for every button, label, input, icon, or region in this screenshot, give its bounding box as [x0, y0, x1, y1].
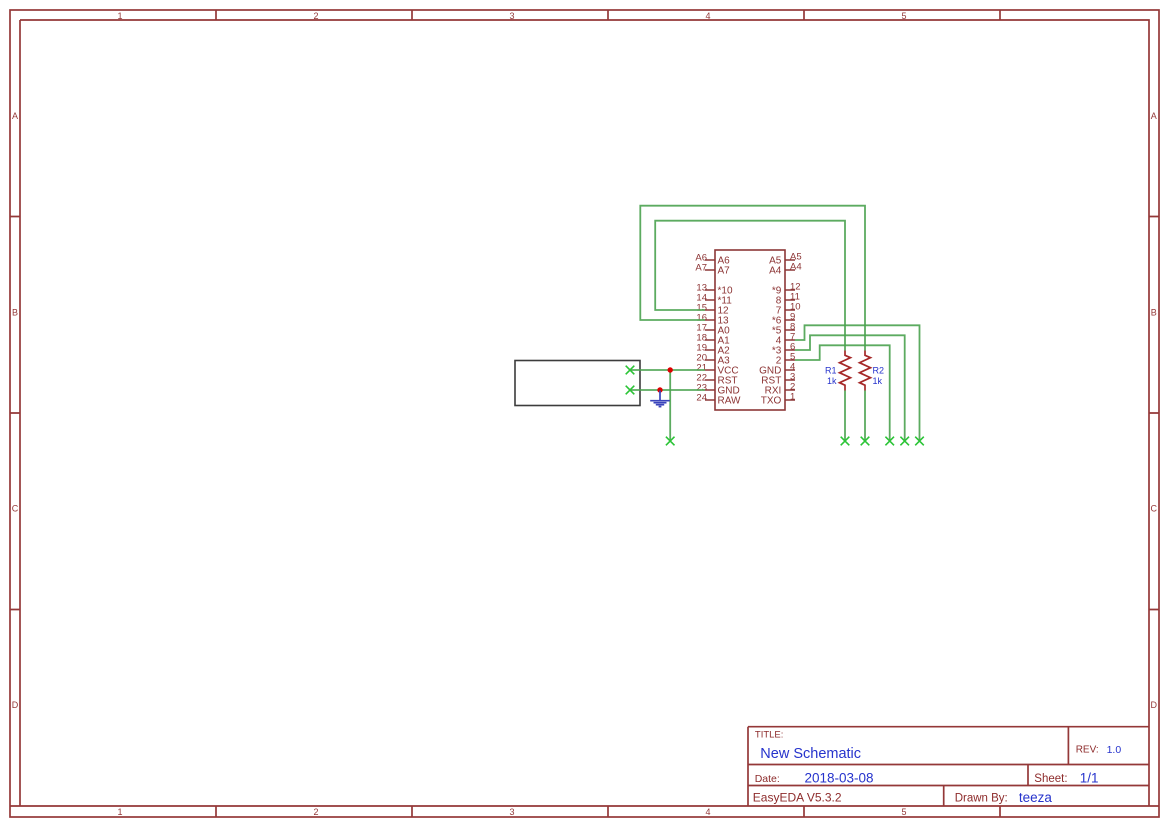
svg-text:Sheet:: Sheet: — [1034, 773, 1067, 785]
wire: pin 5 to bottom flag — [795, 345, 890, 441]
svg-text:1: 1 — [117, 11, 122, 21]
svg-text:A7: A7 — [695, 263, 707, 274]
U1 left pin A7 (A7) — [695, 263, 730, 277]
svg-text:D: D — [1151, 700, 1158, 710]
wire: VCC junction down to flag — [669, 370, 671, 441]
svg-text:3: 3 — [509, 807, 514, 817]
no-connect flag at (670.2,441) — [666, 437, 675, 446]
wire: R1 bottom to flag — [844, 391, 846, 442]
no-connect flag at (630,370) — [626, 366, 635, 375]
svg-text:4: 4 — [705, 11, 710, 21]
svg-text:1k: 1k — [873, 376, 883, 386]
no-connect flag at (919.5,441) — [915, 437, 924, 446]
junction on VCC net — [668, 367, 673, 372]
wire: pin 16 to R2 top (outer loop) — [640, 206, 865, 351]
junction on GND net — [657, 387, 662, 392]
wire: pin 6 to bottom flag — [795, 335, 905, 441]
svg-text:24: 24 — [696, 393, 707, 404]
svg-text:R1: R1 — [825, 366, 837, 376]
svg-text:5: 5 — [901, 11, 906, 21]
resistor R1 — [840, 351, 851, 391]
svg-text:5: 5 — [901, 807, 906, 817]
resistor R2 — [860, 351, 871, 391]
no-connect flag at (889.7,441) — [885, 437, 894, 446]
U1 right pin 5 (2) — [776, 352, 796, 367]
U1 right pin 7 (4) — [776, 332, 796, 347]
wire: R2 bottom to flag — [864, 391, 866, 442]
U1 left pin 23 (GND) — [696, 383, 739, 397]
U1 right pin 6 (*3) — [772, 342, 795, 357]
no-connect flag at (630,390) — [626, 386, 635, 395]
U1 left pin 16 (13) — [696, 313, 729, 327]
svg-text:1: 1 — [117, 807, 122, 817]
U1 right pin 10 (7) — [776, 302, 801, 317]
svg-text:1: 1 — [790, 392, 795, 403]
wire: GND pin 23 to left flag — [630, 389, 705, 391]
U1 right pin 3 (RST) — [761, 372, 795, 387]
svg-text:Date:: Date: — [755, 773, 780, 785]
U1 left pin 19 (A2) — [696, 343, 730, 357]
svg-text:2: 2 — [313, 807, 318, 817]
svg-text:New Schematic: New Schematic — [760, 746, 861, 762]
svg-text:1/1: 1/1 — [1080, 770, 1099, 785]
U1 right pin 8 (*5) — [772, 322, 795, 337]
U1 right pin 1 (TXO) — [761, 392, 796, 407]
U1 left pin 24 (RAW) — [696, 393, 741, 407]
svg-text:TXO: TXO — [761, 396, 782, 407]
svg-text:R2: R2 — [873, 366, 885, 376]
U1 right pin A4 (A4) — [769, 262, 802, 277]
U1 left pin 13 (*10) — [696, 283, 733, 297]
U1 left pin 20 (A3) — [696, 353, 730, 367]
svg-text:3: 3 — [509, 11, 514, 21]
wire: pin 15 to R1 top (inner loop) — [655, 221, 845, 351]
svg-text:A: A — [12, 111, 18, 121]
svg-text:B: B — [12, 307, 18, 317]
svg-text:A4: A4 — [790, 262, 802, 273]
svg-text:EasyEDA V5.3.2: EasyEDA V5.3.2 — [753, 790, 842, 804]
U1 right pin 9 (*6) — [772, 312, 795, 327]
U1 left pin 21 (VCC) — [696, 363, 738, 377]
svg-text:REV:: REV: — [1076, 744, 1099, 755]
U1 left pin 15 (12) — [696, 303, 729, 317]
U1 left pin 17 (A0) — [696, 323, 730, 337]
svg-text:B: B — [1151, 307, 1157, 317]
svg-text:2018-03-08: 2018-03-08 — [805, 770, 874, 785]
svg-text:C: C — [1151, 504, 1158, 514]
U1 left pin A6 (A6) — [695, 253, 730, 267]
ground — [650, 391, 670, 407]
graphic rectangle — [515, 361, 640, 406]
svg-text:4: 4 — [705, 807, 710, 817]
svg-text:A7: A7 — [718, 266, 731, 277]
U1 right pin 12 (*9) — [772, 282, 801, 297]
svg-text:2: 2 — [313, 11, 318, 21]
U1 left pin 14 (*11) — [696, 293, 732, 307]
no-connect flag at (865,441) — [861, 437, 870, 446]
svg-text:RAW: RAW — [718, 396, 742, 407]
no-connect flag at (845,441) — [841, 437, 850, 446]
wire: pin 7 to bottom flag — [795, 325, 920, 441]
U1 left pin 18 (A1) — [696, 333, 730, 347]
svg-text:1k: 1k — [827, 376, 837, 386]
svg-text:A4: A4 — [769, 266, 782, 277]
U1 right pin 4 (GND) — [759, 362, 795, 377]
U1 left pin 22 (RST) — [696, 373, 737, 387]
svg-text:C: C — [12, 504, 19, 514]
component U1 body — [715, 250, 785, 410]
svg-text:teeza: teeza — [1019, 790, 1053, 805]
svg-text:1.0: 1.0 — [1107, 744, 1122, 756]
svg-text:TITLE:: TITLE: — [755, 730, 784, 741]
svg-text:A: A — [1151, 111, 1157, 121]
svg-text:D: D — [12, 700, 19, 710]
svg-text:Drawn By:: Drawn By: — [955, 792, 1008, 804]
U1 right pin A5 (A5) — [769, 252, 802, 267]
U1 right pin 2 (RXI) — [765, 382, 796, 397]
U1 right pin 11 (8) — [776, 292, 800, 307]
no-connect flag at (904.7,441) — [900, 437, 909, 446]
wire: VCC pin 21 to left flag — [630, 369, 705, 371]
